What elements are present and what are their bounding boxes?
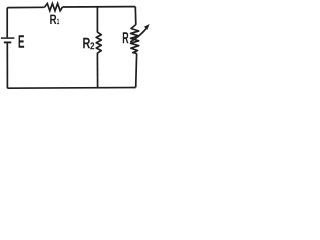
resistor R2 <box>96 32 101 55</box>
wire right lower segment <box>135 53 138 87</box>
wire R2 branch bottom <box>96 55 98 88</box>
wire left upper segment <box>6 8 8 38</box>
resistor R (variable) <box>131 25 139 54</box>
label R (variable resistor) <box>123 32 129 43</box>
wire R2 branch top <box>96 8 98 33</box>
label R1 subscript 1 <box>57 19 59 24</box>
label R2 subscript 2 <box>90 42 94 49</box>
wire left lower segment <box>6 43 8 89</box>
resistor R1 <box>45 4 63 11</box>
wire top-left segment <box>7 6 44 8</box>
label R2 letter R <box>83 38 90 48</box>
wiper arrow of R <box>130 24 149 42</box>
wire top-right segment <box>63 6 136 8</box>
wire right upper segment <box>134 7 137 25</box>
label R1 letter R <box>50 15 56 24</box>
wire bottom <box>7 87 135 90</box>
label E <box>19 35 25 48</box>
battery E <box>1 38 15 42</box>
